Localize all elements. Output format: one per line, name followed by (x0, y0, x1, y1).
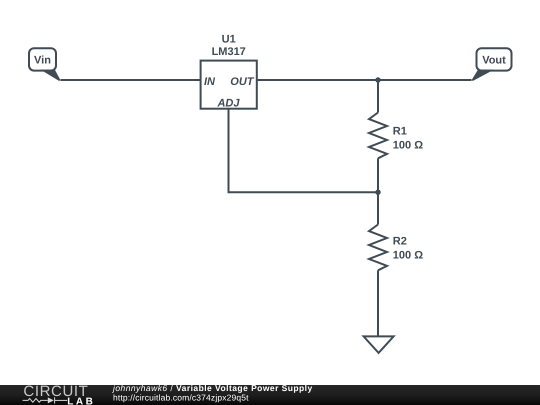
wire node B to R2 top (377, 192, 379, 224)
net flag Vout tail (472, 70, 495, 81)
svg-text:R2: R2 (393, 236, 407, 248)
svg-text:LM317: LM317 (212, 46, 246, 58)
wire R1 bottom to node B (377, 158, 379, 192)
node A junction dot (375, 77, 380, 82)
svg-text:100 Ω: 100 Ω (393, 250, 423, 262)
wire R2 bottom to ground (377, 270, 379, 336)
svg-text:ADJ: ADJ (216, 98, 240, 110)
svg-text:IN: IN (204, 76, 216, 88)
resistor R1 (369, 113, 387, 159)
net flag Vout (477, 48, 512, 70)
footer bar (0, 385, 540, 405)
svg-text:OUT: OUT (230, 76, 255, 88)
net flag Vin tail (41, 70, 61, 81)
net flag Vin (29, 48, 56, 70)
wire U1 OUT pin to Vout (257, 79, 472, 81)
ground (364, 336, 394, 353)
CircuitLab logo resistor-diode glyph (23, 397, 68, 403)
svg-text:U1: U1 (222, 33, 236, 45)
wire ADJ pin down and right to node B (229, 109, 379, 193)
svg-text:Vout: Vout (482, 55, 506, 67)
op-amp U1 box (201, 61, 257, 109)
svg-text:http://circuitlab.com/c374zjpx: http://circuitlab.com/c374zjpx29q5t (113, 392, 249, 402)
svg-text:Vin: Vin (34, 55, 51, 67)
wire Vin to U1 IN pin (61, 79, 201, 81)
resistor R2 (369, 225, 387, 271)
wire node A to R1 top (377, 80, 379, 113)
node B junction dot (375, 190, 380, 195)
svg-text:R1: R1 (393, 126, 407, 138)
CircuitLab logo diode triangle (48, 397, 54, 403)
svg-text:100 Ω: 100 Ω (393, 140, 423, 152)
svg-text:LAB: LAB (67, 396, 95, 405)
